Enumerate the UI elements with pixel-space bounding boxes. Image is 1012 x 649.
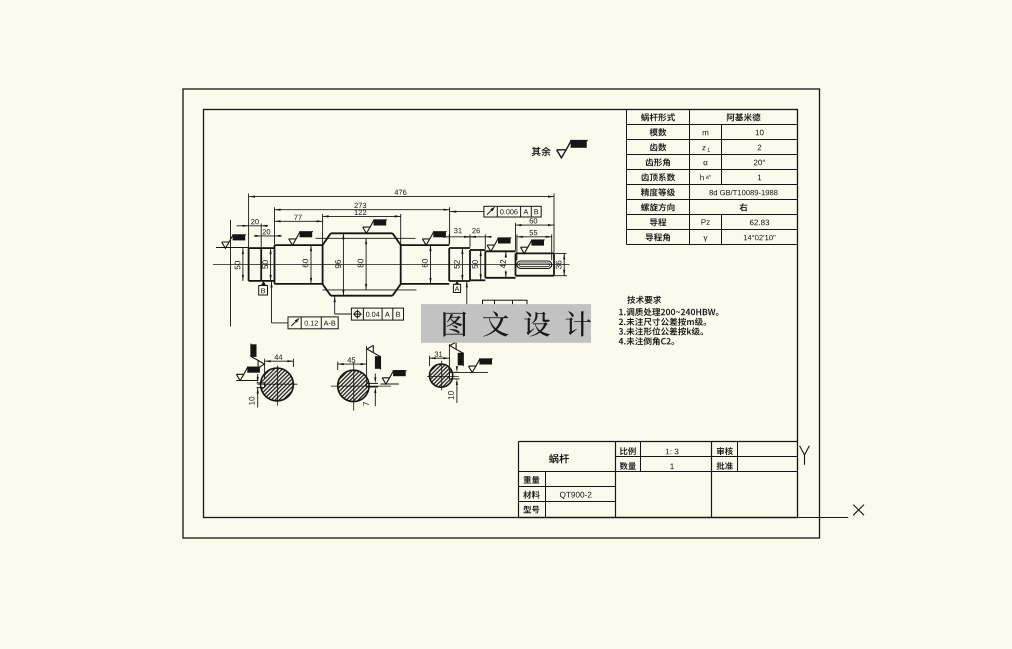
GDT frame (partially hidden by watermark)	[466, 281, 527, 311]
worm parameter table	[627, 110, 798, 245]
"other surfaces" note with surface symbol	[532, 140, 588, 157]
dimension 20 first section	[237, 219, 269, 247]
outer border frame	[183, 89, 820, 538]
dia 50 dimension (section 2)	[262, 248, 271, 281]
inner border frame	[204, 110, 798, 518]
shaft section 9 (dia 36, keyed end, len 60)	[516, 253, 555, 275]
shaft section 2 (dia 50, len 20)	[261, 248, 274, 281]
watermark box	[421, 304, 591, 343]
worm root circle lines (dia 80)	[316, 238, 417, 290]
cross-section view 2 (keyway section, dims 45 / 7)	[331, 345, 407, 410]
keyway slot on section 9	[517, 261, 552, 268]
cross-section view 3 (keyway section, dims 31 / 10)	[427, 342, 493, 403]
dia 96 dimension (worm OD)	[335, 233, 344, 295]
dia 42 dimension (section 8)	[500, 251, 507, 277]
dimension 476 overall length	[249, 190, 554, 253]
shaft section 7 (dia 50, len 26)	[470, 250, 485, 280]
surface symbol on section3 (dia60 left)	[289, 232, 313, 246]
GDT frame circular runout 0.12 A-B	[270, 282, 338, 329]
surface symbol on section9 (dia36)	[521, 240, 545, 254]
dia 52 dimension (section 6)	[454, 248, 464, 281]
dimension 20 second section	[254, 229, 282, 237]
shaft section 5 (dia 60)	[401, 245, 450, 284]
cross-section view 1 (keyway section, dims 44 / 10)	[236, 344, 297, 408]
dimension 31	[443, 228, 476, 247]
dia 36 dimension (section 9)	[555, 253, 567, 275]
dimension 122 worm length	[323, 210, 401, 245]
dia 60 dimension (section 3)	[303, 245, 313, 284]
dimension 26	[464, 228, 492, 249]
dia 50 dimension (section 7)	[472, 250, 482, 280]
surface symbol on section5 (dia60 right)	[422, 232, 446, 246]
X axis marker	[853, 505, 864, 516]
dia 60 dimension (section 5)	[422, 245, 432, 284]
shaft section 1 (dia 50, len 20)	[249, 248, 262, 281]
datum B	[259, 281, 268, 295]
GDT frame position 0.04 A B	[334, 296, 404, 320]
surface symbol on section1 extended edge	[216, 235, 249, 249]
surface symbol on worm top	[363, 220, 387, 234]
dimension 77	[275, 215, 323, 223]
shaft section 3 (dia 60, len 77)	[275, 245, 323, 284]
surface symbol on section8 (dia42)	[487, 238, 511, 252]
shaft section 6 (dia 52, len 31)	[449, 248, 470, 281]
datum A	[453, 281, 460, 292]
dimension 60 end section	[516, 218, 555, 250]
technical requirements text	[619, 296, 719, 346]
shaft centerline	[213, 264, 570, 266]
dimension 55 keyway length	[517, 230, 552, 260]
dia 80 dimension (worm root)	[358, 238, 368, 290]
Y axis marker	[800, 446, 805, 455]
worm section (dia 96 / root dia 80, len 122)	[323, 233, 401, 295]
GDT frame circular runout 0.006 A B	[450, 206, 542, 217]
auxiliary vertical line left of shaft	[230, 220, 232, 327]
frame bottom extension line to X axis marker	[798, 517, 849, 519]
dimension 273	[275, 203, 450, 245]
title block	[519, 442, 798, 518]
shaft section 8 (dia 42)	[485, 251, 515, 277]
dia 50 dimension (section 1)	[235, 248, 244, 281]
